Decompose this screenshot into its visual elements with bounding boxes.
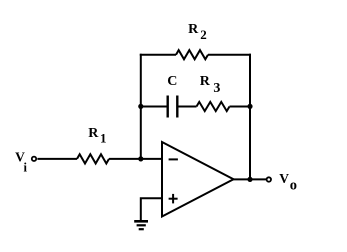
wire top branch right bbox=[208, 54, 251, 56]
resistor R3 bbox=[197, 102, 230, 111]
wire node A to op-amp inverting input bbox=[141, 158, 162, 160]
wire R1 to node A bbox=[109, 158, 141, 160]
label Vi bbox=[15, 150, 27, 175]
ground symbol bbox=[134, 221, 148, 229]
wire input bbox=[37, 158, 77, 160]
svg-text:i: i bbox=[24, 160, 28, 174]
node A junction dot (inverting input node) bbox=[138, 156, 143, 161]
svg-text:R: R bbox=[88, 126, 99, 141]
label R2 bbox=[188, 22, 207, 42]
label R1 bbox=[88, 126, 106, 146]
node B junction dot (left end of C-R3 branch) bbox=[138, 104, 143, 109]
label R3 bbox=[200, 74, 221, 96]
svg-text:2: 2 bbox=[200, 27, 207, 42]
wire output bbox=[234, 178, 267, 180]
terminal Vo bbox=[267, 177, 271, 181]
capacitor C left plate bbox=[166, 96, 168, 118]
svg-text:R: R bbox=[188, 22, 199, 37]
svg-text:C: C bbox=[167, 74, 177, 89]
node D junction dot (output feedback junction) bbox=[247, 177, 252, 182]
wire R3 to node C bbox=[230, 106, 251, 108]
svg-text:V: V bbox=[279, 171, 289, 186]
resistor R1 bbox=[77, 154, 109, 163]
svg-text:R: R bbox=[200, 74, 211, 89]
svg-text:o: o bbox=[290, 178, 297, 194]
wire feedback left vertical bbox=[140, 54, 142, 159]
op-amp minus sign (inverting input) bbox=[169, 158, 178, 160]
op-amp U1 triangle bbox=[162, 142, 234, 217]
wire feedback right vertical bbox=[249, 54, 251, 180]
label Vo bbox=[279, 171, 297, 194]
node C junction dot (right end of C-R3 branch) bbox=[247, 104, 252, 109]
terminal Vi bbox=[32, 157, 36, 161]
capacitor C right plate bbox=[176, 96, 178, 118]
op-amp plus sign (non-inverting input) bbox=[169, 194, 178, 204]
wire top branch left bbox=[140, 54, 176, 56]
wire capacitor to R3 bbox=[177, 106, 196, 108]
svg-text:1: 1 bbox=[100, 131, 107, 146]
svg-text:3: 3 bbox=[213, 81, 220, 96]
wire node B to capacitor bbox=[141, 106, 168, 108]
wire non-inverting input bbox=[141, 198, 162, 220]
resistor R2 bbox=[176, 50, 208, 59]
